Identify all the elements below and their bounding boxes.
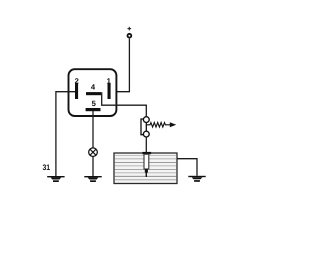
pin 1 contact bar: [108, 84, 111, 100]
wire from pin 4 to injector valve: [102, 92, 147, 117]
ground at right of tank: [188, 176, 205, 182]
fuel pickup pump in tank: [142, 152, 151, 177]
ground at terminal 31: [47, 176, 64, 182]
svg-text:2: 2: [75, 77, 79, 86]
wire from pin 5 to lamp: [92, 111, 94, 148]
pin 4 contact bar: [86, 92, 101, 95]
spray arrow of injector: [146, 122, 176, 127]
ground below lamp: [84, 176, 101, 182]
wire from lamp to ground: [92, 157, 94, 177]
wire from tank to right ground: [177, 159, 197, 176]
relay K1 body: [69, 69, 117, 116]
injector valve: [141, 117, 149, 137]
wire from pin 2 to ground terminal 31: [56, 92, 75, 177]
svg-text:31: 31: [43, 163, 51, 172]
battery plus terminal: [127, 27, 131, 38]
fuel tank: [114, 153, 177, 184]
pin 5 contact bar: [86, 108, 101, 111]
wire from injector to fuel tank: [145, 137, 147, 152]
pin 2 contact bar: [75, 84, 78, 100]
lamp: [89, 148, 98, 157]
wire from plus terminal to pin 1: [110, 39, 129, 92]
